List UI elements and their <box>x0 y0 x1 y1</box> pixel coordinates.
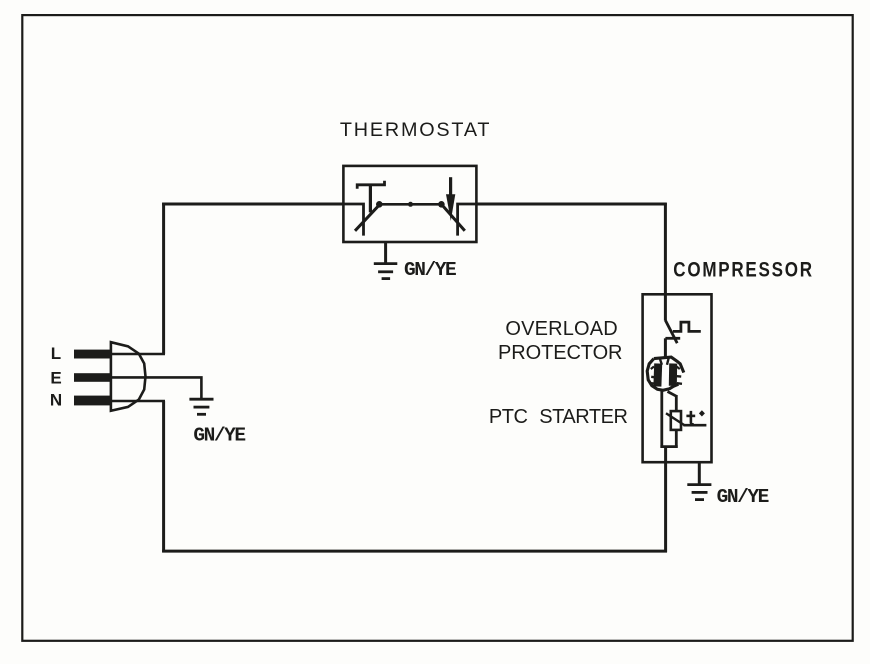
thermostat right terminal post <box>458 204 477 236</box>
svg-text:GN/YE: GN/YE <box>404 259 456 281</box>
svg-text:E: E <box>50 368 61 387</box>
wire E (prong to ground) <box>111 377 201 398</box>
svg-text:COMPRESSOR: COMPRESSOR <box>673 258 813 282</box>
svg-text:L: L <box>51 344 61 363</box>
ground (plug) <box>189 399 213 414</box>
wire overload to motor <box>664 338 667 357</box>
thermostat left switch blade <box>355 204 380 231</box>
wire thermostat to compressor <box>476 203 667 206</box>
PTC bottom join <box>660 445 677 448</box>
overload pulse symbol <box>673 322 701 331</box>
thermostat mid dot <box>408 202 413 207</box>
wire top horizontal (to thermostat box) <box>162 203 344 206</box>
svg-text:GN/YE: GN/YE <box>717 486 769 508</box>
plug prong L <box>74 350 112 359</box>
wire compressor drop <box>664 203 667 321</box>
overload protector switch <box>665 320 677 343</box>
ground (compressor) <box>687 485 711 500</box>
thermostat right switch blade <box>441 204 464 231</box>
wire bottom horizontal <box>162 550 667 553</box>
motor coil right <box>669 364 677 386</box>
wire bottom-left vertical (N down) <box>162 401 165 552</box>
thermostat wire between contacts <box>379 203 441 206</box>
plug P1 body <box>111 342 146 411</box>
thermostat actuator arrow <box>449 177 452 196</box>
compressor ground wire <box>698 462 701 484</box>
thermostat box <box>343 166 476 242</box>
thermostat contact dot right <box>438 201 445 208</box>
svg-text:N: N <box>50 391 62 410</box>
thermostat ground wire <box>384 242 387 263</box>
thermostat contact dot left <box>376 201 383 208</box>
plug prong N <box>74 396 112 406</box>
motor coil left <box>653 364 662 387</box>
motor M windings housing <box>647 357 684 390</box>
svg-text:OVERLOAD: OVERLOAD <box>505 318 617 340</box>
ground (thermostat) <box>374 264 398 279</box>
PTC branch slant from motor <box>668 392 677 397</box>
svg-text:PTC STARTER: PTC STARTER <box>489 406 628 428</box>
wire compressor bottom drop <box>664 447 667 553</box>
thermostat bimetal <box>357 181 384 213</box>
PTC starter branch left leg <box>660 390 663 448</box>
plug prong E <box>74 373 112 382</box>
svg-text:PROTECTOR: PROTECTOR <box>498 342 622 364</box>
wire top-left vertical (L to thermostat feed) <box>162 203 165 354</box>
PTC starter right leg <box>675 395 678 448</box>
wire L (prong to riser) <box>111 353 165 356</box>
PTC starter element <box>671 411 681 430</box>
thermostat left terminal post <box>343 204 363 236</box>
svg-text:GN/YE: GN/YE <box>193 425 245 447</box>
svg-text:THERMOSTAT: THERMOSTAT <box>340 119 491 141</box>
PTC t-degree symbol <box>683 411 706 425</box>
compressor box <box>643 294 712 462</box>
wire N (prong to riser) <box>111 400 165 403</box>
